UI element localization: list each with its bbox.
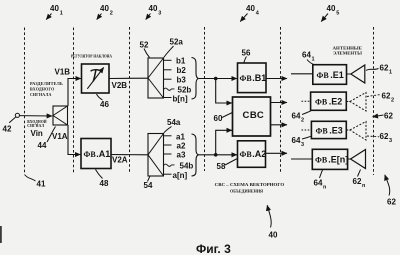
input terminal 42 circle: [15, 113, 19, 117]
svg-text:62: 62: [380, 64, 389, 73]
svg-text:62: 62: [380, 132, 389, 141]
svg-text:40: 40: [327, 4, 336, 13]
wire CBC output upper: [271, 102, 288, 104]
label 62_3: [367, 132, 392, 144]
svg-text:СИГНАЛА: СИГНАЛА: [30, 92, 52, 97]
label 40_3: [146, 4, 162, 20]
svg-text:56: 56: [242, 49, 251, 58]
svg-text:5: 5: [336, 11, 339, 17]
label 64_2: [292, 111, 312, 124]
svg-text:a1: a1: [176, 133, 185, 142]
label 62_n: [353, 170, 367, 190]
svg-text:40: 40: [100, 4, 109, 13]
label 64_n: [314, 170, 328, 191]
scan artifact left edge: [0, 226, 2, 243]
dashed section boundary line 6: [373, 27, 375, 175]
label 62_2: [367, 92, 394, 104]
svg-text:40: 40: [246, 4, 255, 13]
svg-text:2: 2: [391, 98, 394, 104]
svg-text:a2: a2: [177, 142, 186, 151]
svg-text:ФВ.E[n]: ФВ.E[n]: [315, 155, 348, 165]
splitter 52 output stub b3: [164, 78, 172, 80]
svg-text:b3: b3: [177, 76, 187, 85]
splitter 52 output stub b[n]: [164, 97, 172, 99]
splitter 52: [148, 58, 164, 98]
dashed section boundary line 5: [280, 27, 282, 172]
label 54b with squiggle leader: [164, 162, 194, 171]
svg-text:64: 64: [292, 136, 301, 145]
wire node A up to CBC input: [216, 130, 232, 155]
splitter 52 output stub b2: [164, 69, 172, 71]
brace for b outputs: [192, 58, 199, 100]
svg-text:64: 64: [314, 179, 323, 188]
splitter 54: [148, 134, 164, 177]
wire into phase shifter E[n]: [291, 158, 312, 160]
antenna element 62_1: [347, 65, 365, 83]
svg-text:52a: 52a: [170, 38, 184, 47]
svg-text:40: 40: [269, 231, 278, 240]
svg-text:a[n]: a[n]: [173, 171, 188, 180]
svg-text:3: 3: [158, 11, 161, 17]
svg-text:41: 41: [37, 180, 46, 189]
svg-text:ФВ.A1: ФВ.A1: [84, 149, 111, 159]
label 52a: [164, 38, 184, 58]
svg-text:СВС – СХЕМА ВЕКТОРНОГО: СВС – СХЕМА ВЕКТОРНОГО: [215, 182, 285, 187]
svg-text:64: 64: [302, 51, 311, 60]
svg-text:СВС: СВС: [243, 110, 265, 121]
label 40_5: [321, 4, 339, 22]
dotted input stub E2: [302, 100, 311, 102]
svg-text:ФВ.E1: ФВ.E1: [317, 70, 344, 80]
phase shifter box E2 (64_2): [311, 92, 347, 110]
wire V2B regulator to splitter 52: [109, 77, 148, 79]
svg-text:40: 40: [149, 4, 158, 13]
phase shifter box A2 (58): [238, 141, 267, 168]
svg-text:ОБЪЕДИНЕНИЯ: ОБЪЕДИНЕНИЯ: [230, 189, 264, 194]
dashed section boundary line 2: [73, 28, 75, 175]
phase shifter box 48: [81, 139, 111, 169]
dashed section boundary line 1: [24, 28, 26, 174]
svg-text:Фиг. 3: Фиг. 3: [196, 242, 231, 255]
wire B1 output: [266, 78, 287, 80]
svg-text:44: 44: [38, 141, 47, 150]
svg-text:1: 1: [312, 57, 315, 63]
label 52: [140, 41, 150, 58]
label АНТЕННЫЕ ЭЛЕМЕНТЫ: [333, 45, 363, 55]
svg-text:1: 1: [60, 11, 63, 17]
phase shifter box E[n] (64_n): [312, 149, 348, 169]
svg-text:b2: b2: [177, 66, 187, 75]
svg-text:2: 2: [110, 11, 113, 17]
svg-text:62: 62: [387, 198, 396, 207]
svg-text:V2B: V2B: [112, 81, 128, 90]
label ВХОДНОЙ СИГНАЛ: [27, 119, 47, 128]
wire V1B splitter to slope regulator: [68, 79, 81, 107]
svg-text:3: 3: [389, 138, 392, 144]
wire CBC output lower: [271, 124, 288, 126]
svg-text:Vin: Vin: [31, 129, 43, 138]
svg-text:ЭЛЕМЕНТЫ: ЭЛЕМЕНТЫ: [333, 51, 362, 56]
svg-text:60: 60: [214, 114, 223, 123]
svg-text:40: 40: [50, 4, 59, 13]
wire A2 output: [266, 152, 288, 154]
svg-text:АНТЕННЫЕ: АНТЕННЫЕ: [333, 45, 363, 50]
phase shifter box E1 (64_1): [313, 65, 347, 85]
label 54: [144, 177, 153, 191]
wire brace to node A: [199, 154, 216, 156]
label 60: [214, 113, 233, 124]
label 64_1: [302, 51, 315, 65]
svg-text:2: 2: [301, 118, 304, 124]
wire V2A box 48 to splitter 54: [111, 154, 148, 156]
wire into phase shifter E1: [291, 73, 313, 75]
label 40_1: [46, 4, 63, 20]
svg-text:ФВ.E3: ФВ.E3: [316, 126, 343, 136]
splitter 54 output stub a3: [164, 153, 172, 155]
svg-text:54: 54: [144, 181, 153, 190]
svg-text:54a: 54a: [167, 118, 181, 127]
svg-text:48: 48: [100, 179, 109, 188]
wire node B to phase shifter B1: [216, 78, 237, 80]
svg-text:64: 64: [292, 112, 301, 121]
label 52b with squiggle leader: [164, 86, 192, 95]
svg-text:СИГНАЛ: СИГНАЛ: [27, 123, 45, 128]
wire input to splitter 44: [20, 115, 53, 117]
svg-text:ВХОДНОГО: ВХОДНОГО: [30, 87, 55, 92]
wire brace to node B: [199, 78, 216, 80]
label 40 bottom with curved arrow: [267, 205, 278, 239]
caption CBC = vector combining circuit: [215, 182, 285, 194]
label 41: [25, 175, 46, 189]
label 64_3: [292, 136, 312, 148]
label 46: [97, 94, 110, 109]
wire V1A splitter 44 to phase shifter A1: [68, 125, 80, 155]
svg-text:b1: b1: [176, 57, 186, 66]
slope regulator box 46: [82, 64, 110, 93]
svg-text:1: 1: [389, 70, 392, 76]
antenna element 62_2 dashed: [346, 93, 366, 112]
antenna element 62_3 dashed: [346, 122, 366, 141]
svg-text:62: 62: [382, 92, 391, 101]
label 62 middle with arrow to dashed line: [373, 112, 394, 121]
svg-text:42: 42: [3, 125, 12, 134]
svg-text:58: 58: [217, 162, 226, 171]
splitter 54 output stub a1: [164, 135, 172, 137]
dotted input stub E3: [302, 129, 312, 131]
wire node A to phase shifter A2: [216, 154, 237, 156]
svg-text:a3: a3: [177, 151, 186, 160]
label 54a: [164, 118, 181, 133]
label 42: [3, 117, 16, 134]
node B junction dot: [214, 77, 218, 81]
svg-text:V1A: V1A: [52, 132, 68, 141]
svg-text:РАЗДЕЛИТЕЛЬ: РАЗДЕЛИТЕЛЬ: [30, 81, 63, 86]
label 40_4: [240, 4, 260, 22]
svg-text:54b: 54b: [180, 162, 194, 171]
svg-text:62: 62: [353, 177, 362, 186]
svg-text:ФВ.E2: ФВ.E2: [315, 97, 342, 107]
svg-text:b[n]: b[n]: [173, 95, 188, 104]
svg-text:62: 62: [384, 112, 393, 121]
svg-text:52b: 52b: [178, 86, 192, 95]
node A junction dot: [214, 153, 218, 157]
dashed section boundary line 4: [204, 27, 206, 171]
svg-text:46: 46: [100, 100, 109, 109]
label 40_2: [97, 4, 113, 20]
svg-text:52: 52: [140, 41, 149, 50]
label 48: [96, 170, 109, 189]
svg-text:3: 3: [301, 142, 304, 148]
splitter 52 output stub b1: [164, 59, 172, 61]
label 58: [217, 159, 238, 172]
wire node B down to CBC input: [216, 79, 232, 104]
phase shifter box B1 (56): [238, 63, 267, 93]
svg-text:ФВ.B1: ФВ.B1: [240, 73, 267, 83]
splitter 54 output stub a2: [164, 144, 172, 146]
antenna element 62_n: [348, 150, 366, 169]
brace for a outputs: [192, 134, 199, 176]
splitter 54 output stub a[n]: [164, 173, 172, 175]
svg-text:V1B: V1B: [55, 68, 71, 77]
splitter 44: [53, 106, 68, 125]
label 44: [38, 127, 56, 151]
dashed section boundary line 3: [129, 27, 131, 174]
CBC vector combiner box 60: [233, 97, 271, 136]
svg-text:РЕГУЛЯТОР НАКЛОНА: РЕГУЛЯТОР НАКЛОНА: [71, 54, 112, 59]
label 62_1: [366, 64, 392, 76]
label 62 bottom with curved arrow: [385, 175, 397, 207]
phase shifter box E3 (64_3): [311, 121, 346, 138]
svg-text:V2A: V2A: [112, 156, 128, 165]
svg-text:ФВ.A2: ФВ.A2: [240, 149, 267, 159]
label РАЗДЕЛИТЕЛЬ ВХОДНОГО СИГНАЛА: [30, 81, 63, 97]
label 56: [242, 49, 251, 64]
